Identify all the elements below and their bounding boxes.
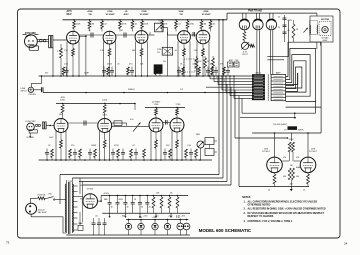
wire V8 drop right to bus	[160, 130, 162, 160]
junction on ground bus row1	[141, 75, 143, 77]
resistor R50	[288, 142, 291, 152]
svg-text:NOTES: NOTES	[242, 196, 251, 199]
svg-text:1M: 1M	[290, 165, 293, 167]
capacitor C73 filter	[132, 196, 134, 203]
capacitor C60 stack	[284, 15, 286, 42]
svg-text:ALL RESISTORS IN OHMS, 1/2W, +: ALL RESISTORS IN OHMS, 1/2W, +/-20% UNLE…	[248, 208, 326, 211]
ground MIC2	[29, 133, 31, 136]
svg-text:4.: 4.	[244, 220, 246, 223]
svg-text:PWR TRANS: PWR TRANS	[248, 9, 262, 12]
motor outer box	[310, 16, 333, 42]
wire V4 cathode drop right	[189, 42, 191, 77]
resistor R61 divider	[161, 196, 163, 198]
wire V8 V9 coupling cap	[165, 120, 167, 125]
capacitor bypass 3 row1	[103, 67, 105, 71]
junction on ground bus row1	[109, 75, 111, 77]
svg-text:60HZ: 60HZ	[323, 40, 329, 42]
wire V6 plate to V7	[68, 122, 98, 124]
resistor R21 plate V7	[103, 105, 106, 114]
terminal TB2 cell line 1	[271, 77, 286, 79]
wire dropper 2 from bus row1	[213, 76, 215, 82]
svg-text:470K: 470K	[114, 145, 119, 147]
wire V1 plate junction	[79, 35, 86, 37]
wire bias leads	[79, 212, 81, 225]
tube V1	[67, 31, 80, 44]
svg-text:470K: 470K	[289, 139, 294, 141]
svg-text:1: 1	[212, 74, 213, 76]
junction ground bus row2	[155, 159, 157, 161]
svg-text:1/2 6SN7: 1/2 6SN7	[201, 14, 211, 16]
motor M1 symbol	[322, 27, 328, 33]
resistor bypass 16 row2	[185, 149, 188, 158]
wire J1 to V1 grid	[53, 39, 67, 41]
resistor bypass 15 row2	[169, 149, 172, 158]
svg-text:PHONO: PHONO	[29, 94, 37, 96]
terminal TB1 cell gap 4	[252, 85, 264, 87]
terminal TB2 text 5	[273, 89, 283, 91]
svg-text:560: 560	[283, 176, 286, 178]
dashed separator between strips	[267, 74, 269, 101]
resistor bypass 6 row1	[127, 67, 130, 75]
wire output bottom rail	[239, 186, 309, 188]
capacitor bypass 15 row1	[215, 67, 217, 71]
svg-text:.02: .02	[192, 64, 195, 66]
rectifier SR2 circled	[138, 223, 144, 229]
svg-text:100K: 100K	[102, 100, 107, 102]
phono selector S2	[197, 141, 204, 148]
wire plate feed right tube	[307, 133, 309, 157]
wire V8 plate to V9 grid	[163, 122, 170, 124]
resistor R11 plate load	[201, 20, 203, 21]
capacitor bypass 12 row2	[135, 149, 137, 153]
capacitor bypass 6 row2	[89, 149, 91, 153]
wire secondary to rectifier	[78, 196, 84, 198]
resistor R13 cathode	[183, 44, 185, 48]
wire V2 cathode drop left	[103, 42, 105, 77]
rectifier tube V12	[83, 194, 98, 209]
terminal TB2 cell line 2	[271, 80, 286, 82]
junction ground bus row2	[176, 159, 178, 161]
svg-text:10: 10	[278, 17, 280, 19]
tube V7	[98, 119, 112, 133]
svg-text:MOTOR: MOTOR	[321, 19, 330, 21]
svg-text:5Y3GT: 5Y3GT	[87, 189, 95, 191]
svg-text:470: 470	[45, 73, 48, 75]
terminal TB1 lug text 6	[254, 89, 263, 91]
svg-text:.05: .05	[117, 64, 120, 66]
svg-text:1M: 1M	[204, 24, 207, 26]
wire V9 drop left to bus	[171, 130, 173, 160]
wire nested horizontal 1 to transformer	[60, 174, 219, 176]
terminal TB2 text 6	[273, 92, 283, 94]
resistor bypass 11 row1	[182, 67, 185, 75]
wire center column	[290, 133, 292, 141]
resistor R40 bleeder	[243, 30, 245, 32]
capacitor C71 filter	[117, 196, 119, 203]
resistor R63 divider	[177, 196, 179, 198]
B+ filter rail	[101, 195, 188, 197]
svg-text:1/2 6SN7: 1/2 6SN7	[105, 14, 115, 16]
svg-text:.05: .05	[95, 216, 98, 218]
capacitor bypass 14 row2	[164, 149, 166, 153]
wire T1 secondary top lead	[71, 178, 73, 184]
resistor R12 plate load	[210, 20, 212, 21]
svg-text:VOL: VOL	[130, 119, 134, 121]
wire V12 plate to B+	[98, 200, 102, 202]
wire can2 to TB1 b	[258, 30, 260, 74]
chassis line bottom	[66, 234, 190, 236]
wire plug top lead	[29, 198, 31, 203]
resistor R20 plate V6	[61, 105, 64, 114]
junction on ground bus row1	[78, 75, 80, 77]
junction on ground bus row1	[147, 75, 149, 77]
terminal TB2 cell line 3	[271, 83, 286, 85]
wire V8 drop left to bus	[150, 130, 152, 160]
wire dropper 4 from bus row1	[221, 76, 223, 90]
resistor R33 cathode row2	[176, 133, 178, 141]
wire V5 cathode drop right	[208, 42, 210, 77]
terminal strip TB2 outline	[271, 75, 286, 101]
svg-text:680: 680	[132, 50, 135, 52]
wire loop net 3	[286, 55, 311, 97]
wire lower horizontal right	[240, 117, 296, 119]
resistor R6 plate load	[132, 20, 134, 21]
svg-text:1M: 1M	[92, 24, 95, 26]
wire rail to cap bus corner	[226, 13, 228, 20]
junction ground bus row2	[171, 159, 173, 161]
transformer T1 taps	[73, 185, 78, 187]
wire loop net 5	[286, 67, 302, 89]
wire bundle drop 2	[222, 20, 224, 178]
resistor bypass 18 row2	[195, 149, 198, 158]
capacitor C4 coupling	[123, 33, 125, 38]
wire V7 plate to volume pot	[112, 122, 127, 124]
capacitor bypass 7 row1	[131, 67, 133, 71]
wire to TB1 terminal 5	[206, 86, 252, 88]
junction on ground bus row1	[103, 75, 105, 77]
svg-text:1.5K: 1.5K	[187, 145, 192, 147]
ground arrow filter	[139, 213, 141, 216]
svg-text:560: 560	[296, 176, 299, 178]
wire to TB1 terminal 4	[218, 83, 252, 85]
svg-text:20: 20	[149, 207, 151, 209]
junction ground bus row2	[84, 159, 86, 161]
resistor R14 cathode	[202, 44, 204, 48]
transformer T1 core	[68, 182, 70, 234]
resistor R12 cathode	[141, 44, 143, 48]
wire loop net 2	[286, 48, 316, 101]
junction ground bus row2	[150, 159, 152, 161]
terminal TB2 cell line 5	[271, 90, 286, 92]
svg-text:6SJ7: 6SJ7	[66, 14, 72, 16]
wire to TB1 terminal 7	[226, 92, 252, 94]
wire bundle 6 drop to output rail	[238, 96, 240, 187]
wire nested horizontal 2	[72, 177, 223, 179]
wire bundle drop 4	[230, 87, 232, 185]
resistor R31 cathode row2	[104, 133, 106, 141]
svg-text:220K: 220K	[190, 24, 195, 26]
wire can C51 top leads	[255, 13, 257, 20]
svg-text:400V: 400V	[123, 13, 129, 16]
wire to TB1 terminal 8	[230, 95, 252, 97]
shielded transformer T2 black	[154, 65, 162, 74]
junction on ground bus row1	[115, 75, 117, 77]
motor trip arrow	[304, 28, 308, 33]
junction bundle at rail	[218, 19, 220, 21]
capacitor C74 filter	[139, 196, 141, 203]
terminal TB1 cell gap 2	[252, 79, 264, 81]
jack J1 plug	[49, 35, 51, 47]
resistor R1 grid leak	[60, 48, 63, 58]
ground arrow output	[290, 180, 292, 187]
resistor R7 plate load	[141, 20, 143, 21]
resistor R17 below V5	[212, 56, 214, 58]
svg-text:SW: SW	[48, 194, 51, 196]
junction ground bus row2	[60, 159, 62, 161]
capacitor bypass 17 row1	[227, 67, 229, 71]
svg-text:73: 73	[6, 241, 10, 245]
resistor R42 tall	[292, 24, 295, 38]
svg-text:MODEL 600 SCHEMATIC: MODEL 600 SCHEMATIC	[199, 228, 252, 233]
ground arrow filter	[155, 213, 157, 216]
resistor R8 plate load	[161, 20, 163, 21]
ground arrow filter	[170, 213, 172, 216]
svg-text:25MF: 25MF	[84, 73, 90, 75]
ground bus row1	[39, 75, 252, 77]
resistor bypass 16 row1	[223, 67, 226, 75]
tube V3	[135, 31, 148, 44]
svg-text:2%: 2%	[157, 52, 160, 54]
wire can C52 top leads	[269, 13, 271, 20]
wire can2 to TB1 a	[256, 30, 258, 74]
terminal TB1 cell gap 8	[252, 96, 264, 98]
terminal TB1 cell gap 6	[252, 90, 264, 92]
tube V4	[178, 31, 191, 44]
capacitor C9 between V4 V5	[192, 32, 194, 37]
svg-text:250K: 250K	[203, 11, 209, 13]
svg-text:TO: TO	[284, 130, 287, 132]
svg-text:24: 24	[344, 242, 348, 246]
svg-text:J0?6: J0?6	[66, 11, 72, 13]
wire bundle 5 grid feed	[234, 90, 236, 138]
terminal TB1 cell gap 3	[252, 82, 264, 84]
resistor R41	[250, 44, 255, 47]
svg-text:FUSE 2A: FUSE 2A	[38, 194, 47, 197]
svg-text:.02: .02	[104, 24, 107, 26]
wire EQ boxes	[204, 140, 205, 142]
wire V4 cathode drop left	[177, 42, 179, 77]
B+ top rail row1	[63, 19, 228, 21]
junction ground bus row2	[117, 159, 119, 161]
wire tone box drop	[166, 32, 168, 76]
resistor R15 below V5	[196, 56, 198, 58]
terminal TB2 text 1	[273, 76, 283, 78]
junction on ground bus row1	[177, 75, 179, 77]
wire dropper 5 from bus row1	[225, 76, 227, 93]
capacitor bypass 13 row1	[207, 67, 209, 71]
junction on ground bus row1	[135, 75, 137, 77]
wire V7 drop left to bus	[99, 130, 101, 160]
svg-text:270K: 270K	[107, 11, 113, 13]
tube V6	[54, 119, 68, 133]
svg-text:T04 6L6 (LAST): T04 6L6 (LAST)	[273, 123, 288, 126]
rail row2 left	[56, 103, 135, 105]
terminal TB2 text 4	[273, 85, 283, 87]
junction ground bus row2	[46, 159, 48, 161]
terminal TB1 cell gap 5	[252, 88, 264, 90]
tube V8	[149, 118, 163, 132]
resistor bypass 1 row1	[62, 67, 65, 75]
microphone MIC1 case	[29, 46, 38, 50]
microphone MIC2 case	[29, 130, 37, 133]
svg-text:6SJ7: 6SJ7	[103, 115, 107, 117]
jack J3 plug	[43, 122, 45, 129]
ground bus row2	[39, 159, 212, 161]
junction on ground bus row1	[196, 75, 198, 77]
resistor R11 cathode	[109, 44, 111, 48]
svg-text:.01: .01	[88, 30, 91, 32]
motor shield dashed left	[310, 20, 318, 34]
svg-text:1/2 6SL7: 1/2 6SL7	[262, 151, 271, 153]
junction on ground bus row1	[189, 75, 191, 77]
wire rail mid to output	[140, 193, 183, 195]
svg-text:SPKR: SPKR	[298, 130, 304, 132]
wire dropper 1 from bus row1	[209, 76, 211, 79]
svg-text:+150: +150	[143, 216, 147, 218]
capacitor bypass 17 row2	[190, 149, 192, 153]
wire can3 to TB2 b	[272, 30, 274, 74]
junction ground bus row2	[109, 159, 111, 161]
equalizer network box	[162, 47, 172, 55]
svg-text:SEL: SEL	[122, 216, 126, 218]
junction on ground bus row1	[52, 75, 54, 77]
switch S1 power	[45, 197, 47, 199]
wire loop net 4	[286, 61, 306, 92]
resistor bypass 9 row2	[117, 149, 120, 158]
dashed shield box V4 cathode	[184, 59, 195, 72]
junction ground bus row2	[130, 159, 132, 161]
wire to TB1 terminal 3	[214, 81, 252, 83]
terminal TB2 text 7	[273, 95, 283, 97]
svg-text:100K: 100K	[144, 24, 149, 26]
EQ network box upper	[205, 138, 214, 145]
capacitor bypass 4 row2	[74, 149, 76, 153]
svg-text:1/2 6SL7: 1/2 6SL7	[309, 151, 318, 153]
resistor R60 divider	[153, 196, 155, 198]
wire bus B+ horizontal	[242, 112, 316, 114]
junction ground bus row2	[99, 159, 101, 161]
terminal TB2 text 3	[273, 82, 283, 84]
ground arrow filter	[109, 213, 111, 216]
motor dashed box right	[319, 21, 331, 35]
volume potentiometer VR1	[112, 125, 149, 127]
wire bundle drop 1	[218, 20, 220, 175]
svg-text:CONTROLS: V OF 2, VOLUME 2,: CONTROLS: V OF 2, VOLUME 2, TONE 1	[248, 221, 293, 223]
svg-text:25/25: 25/25	[107, 64, 113, 66]
svg-text:270K: 270K	[141, 11, 147, 13]
svg-text:1/2 6SN7: 1/2 6SN7	[139, 14, 149, 16]
svg-text:10: 10	[303, 190, 305, 192]
svg-text:1.5K: 1.5K	[64, 64, 69, 66]
svg-text:ALL CAPACITORS IN MICROFARADS,: ALL CAPACITORS IN MICROFARADS, ELECTROLY…	[248, 201, 318, 204]
svg-text:.02: .02	[178, 24, 181, 26]
filter capacitor can C51	[253, 19, 263, 29]
wire bus caps to loops	[267, 56, 288, 58]
svg-text:SHIELD: SHIELD	[128, 89, 135, 91]
terminal TB1 lug text 2	[254, 78, 263, 80]
junction on ground bus row1	[66, 75, 68, 77]
wire dropper 7 from bus row1	[233, 76, 235, 98]
wire T1 bottom leads	[65, 232, 67, 233]
svg-text:+450V: +450V	[103, 193, 110, 195]
terminal TB1 lug text 7	[254, 92, 263, 94]
svg-text:270K: 270K	[154, 104, 159, 106]
wire loop outer to output rail	[320, 107, 322, 133]
svg-text:.05: .05	[213, 24, 216, 26]
motor winding right	[316, 25, 319, 34]
rectifier SR1 circled	[125, 223, 131, 229]
microphone MIC2 symbol	[27, 123, 35, 131]
resistor R62 divider	[169, 196, 171, 198]
tube V10 output	[267, 157, 283, 173]
jack J2 line input	[28, 87, 33, 92]
junction on ground bus row1	[60, 75, 62, 77]
wire motor feed from top bus	[316, 13, 318, 16]
resistor R55 cathode V11	[307, 173, 309, 174]
resistor bypass 5 row2	[79, 149, 82, 158]
svg-text:INPUT: INPUT	[21, 90, 28, 92]
junction on ground bus row1	[183, 75, 185, 77]
junction ground bus row2	[104, 159, 106, 161]
svg-text:.05: .05	[135, 24, 138, 26]
ground arrow filter	[124, 213, 126, 216]
wire J2 right	[34, 89, 42, 91]
bias supply box	[78, 225, 83, 230]
wire bus row1 into TB1	[206, 75, 252, 77]
wire V3 plate to tone box	[148, 34, 155, 36]
wire bundle drop 3	[226, 84, 228, 181]
tone control box with arrow	[155, 23, 164, 32]
junction ground bus row2	[74, 159, 76, 161]
resistor bypass 3 row2	[69, 149, 72, 158]
junction ground bus row2	[199, 159, 201, 161]
bus bias row	[126, 219, 188, 221]
resistor bypass 12 row1	[198, 67, 201, 75]
resistor R5 plate load	[119, 20, 121, 21]
rail row2 right	[145, 107, 185, 109]
resistor R32 cathode row2	[155, 133, 157, 141]
resistor R51	[292, 142, 295, 152]
wire V1 cathode drop left	[66, 42, 68, 77]
resistor R52 center lower	[288, 168, 291, 180]
svg-text:RESPECT TO CHASSIS: RESPECT TO CHASSIS	[248, 215, 274, 218]
svg-text:DC VOLTAGES MEASURED WITH 20,: DC VOLTAGES MEASURED WITH 20,000 O/V MET…	[248, 212, 325, 215]
wire V4 plate to V5 grid	[190, 34, 196, 36]
wire dropper 6 from bus row1	[229, 76, 231, 96]
wire can C50 top leads	[242, 13, 244, 20]
fuse F1	[38, 197, 45, 200]
svg-text:40: 40	[127, 207, 129, 209]
terminal box A before strips	[228, 62, 234, 67]
rectifier SR4 circled	[164, 223, 170, 229]
terminal TB1 lug text 9	[254, 98, 263, 100]
svg-text:40: 40	[141, 207, 143, 209]
capacitor bypass 8 row2	[112, 149, 114, 153]
tube V2	[103, 31, 116, 44]
wire V3 cathode drop right	[147, 42, 149, 77]
resistor R16 below V5	[204, 56, 206, 58]
svg-text:1/2 6SN7: 1/2 6SN7	[152, 101, 162, 103]
